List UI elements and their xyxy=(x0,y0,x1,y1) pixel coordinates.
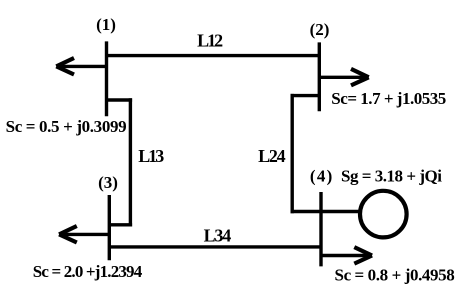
line label L34 xyxy=(204,225,232,245)
value label Sc bus 2 xyxy=(331,89,446,108)
line L13 wire bus1 stub xyxy=(105,98,132,101)
svg-text:L13: L13 xyxy=(138,146,164,166)
load arrow bus 4 xyxy=(321,247,372,264)
svg-text:L24: L24 xyxy=(258,146,286,166)
svg-text:Sc = 0.8 + j0.4958: Sc = 0.8 + j0.4958 xyxy=(335,265,455,284)
bus 3 bar xyxy=(108,195,111,260)
line L13 wire bus3 stub xyxy=(108,223,132,226)
line L34 wire xyxy=(109,245,321,248)
line L24 wire bus2 stub xyxy=(291,94,321,97)
line label L24 xyxy=(258,146,286,166)
value label Sc bus 4 xyxy=(335,265,455,284)
value label Sg generator xyxy=(341,167,442,186)
line L24 wire vertical xyxy=(291,94,294,213)
svg-text:Sc = 2.0 +j1.2394: Sc = 2.0 +j1.2394 xyxy=(33,262,143,281)
svg-text:(4): (4) xyxy=(310,167,333,186)
node label (2) xyxy=(310,20,330,39)
value label Sc bus 1 xyxy=(6,117,127,136)
node label (3) xyxy=(98,173,118,192)
load arrow bus 3 xyxy=(59,226,109,243)
svg-text:L12: L12 xyxy=(197,30,223,50)
value label Sc bus 3 xyxy=(33,262,143,281)
svg-text:(3): (3) xyxy=(98,173,118,192)
svg-text:(2): (2) xyxy=(310,20,330,39)
svg-text:Sc = 0.5 + j0.3099: Sc = 0.5 + j0.3099 xyxy=(6,117,127,136)
svg-text:(1): (1) xyxy=(96,15,116,34)
load arrow bus 2 xyxy=(319,69,368,86)
wire bus4 to generator xyxy=(291,210,360,213)
line L12 wire xyxy=(107,54,320,57)
bus 4 bar xyxy=(319,192,322,266)
bus 1 bar xyxy=(105,41,108,116)
node label (4) xyxy=(310,167,333,186)
line label L13 xyxy=(138,146,164,166)
line label L12 xyxy=(197,30,223,50)
generator G at bus 4 xyxy=(360,191,407,238)
line L13 wire vertical xyxy=(129,98,132,226)
svg-text:Sc= 1.7 + j1.0535: Sc= 1.7 + j1.0535 xyxy=(331,89,446,108)
svg-text:L34: L34 xyxy=(204,225,232,245)
bus 2 bar xyxy=(318,42,321,111)
node label (1) xyxy=(96,15,116,34)
svg-text:Sg = 3.18 + jQi: Sg = 3.18 + jQi xyxy=(341,167,442,186)
load arrow bus 1 xyxy=(56,58,106,75)
